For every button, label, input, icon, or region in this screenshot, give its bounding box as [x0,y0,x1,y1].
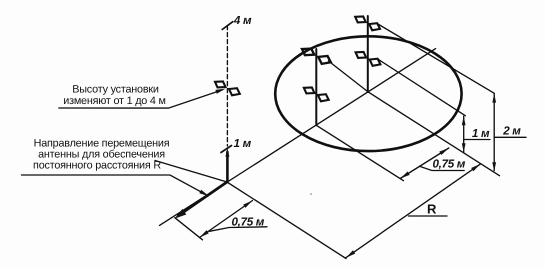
extension from left pole base [316,125,403,180]
dust dot [310,193,312,195]
shelf 2 м [494,136,526,138]
axis B through table center [329,61,500,176]
leader to mast antenna [59,90,222,108]
arrow 1m mast head [225,148,229,157]
extension from arrow tip [175,218,203,240]
left pole [315,49,317,125]
main diagonal axis A [160,49,436,226]
arrow 1m mast shaft [226,152,229,182]
dimension line 0,75 м left [200,201,253,238]
svg-text:2 м: 2 м [502,125,521,138]
antenna right pole top [355,16,380,30]
dimension 1 м vertical [463,116,465,152]
mast dashed pole [226,26,228,147]
svg-text:1 м: 1 м [234,137,252,150]
dimension 2 м vertical [493,94,495,171]
shelf R [409,215,448,217]
right pole [367,16,369,92]
shelf 1 м [464,139,490,141]
ellipse turntable [275,36,461,151]
antenna right pole lower [356,52,381,66]
lower text shelf and leader [22,175,206,194]
svg-text:0,75 м: 0,75 м [433,158,466,171]
mast tick 1m [221,146,232,153]
dimension line 0,75 м right [400,148,449,179]
lower leader arrowhead [199,190,209,197]
svg-text:0,75 м: 0,75 м [232,216,265,229]
mast tick 4m [222,22,233,30]
svg-text:постоянного расстояния R: постоянного расстояния R [33,160,161,172]
svg-text:Высоту установки: Высоту установки [72,84,159,96]
label shelf 0,75 м left [210,227,268,232]
leader to mast antenna head [215,89,225,94]
svg-text:4 м: 4 м [233,14,252,27]
svg-text:1 м: 1 м [472,127,490,140]
thick movement arrow head [175,209,187,219]
extension 1m from lower antenna [379,60,466,116]
axis B through mast base [155,161,346,259]
svg-text:изменяют от 1 до 4 м: изменяют от 1 до 4 м [63,95,165,107]
antenna on mast [215,81,240,95]
antenna left pole lower [304,87,329,101]
svg-text:R: R [427,202,437,217]
label shelf 0,75 м right [420,166,465,170]
svg-text:Направление перемещения: Направление перемещения [34,137,170,149]
thick movement arrow shaft [179,182,228,216]
antenna left pole top [302,49,331,64]
extension 2m from top antenna [379,25,495,94]
dimension R [346,164,481,258]
